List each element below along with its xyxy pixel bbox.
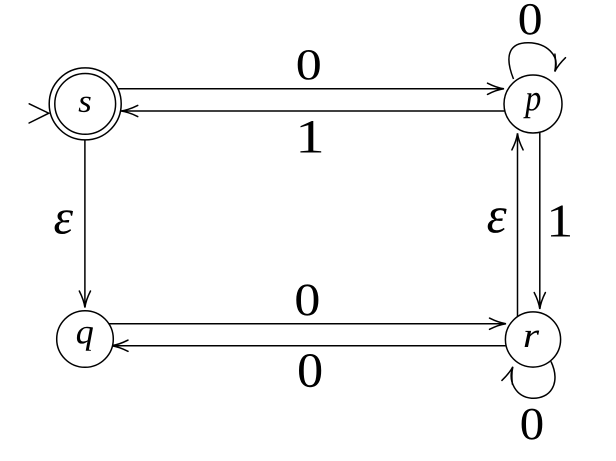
label 1 on p->r <box>551 205 570 236</box>
wire: edge s->q label eps <box>84 140 86 308</box>
wire: edge p->r label 1 <box>539 132 541 309</box>
label 0 on p loop <box>520 4 541 35</box>
label 0 on r->q <box>299 354 321 387</box>
self-loop on r label 0 <box>511 362 555 399</box>
state s (accepting, double circle) <box>49 68 121 140</box>
label epsilon on r->p <box>488 208 507 233</box>
label 0 on q->r <box>296 284 318 315</box>
wire: edge r->p label eps <box>517 133 519 316</box>
state p <box>504 75 562 133</box>
state r <box>505 312 560 367</box>
wire: edge p->s label 1 <box>121 110 505 112</box>
label 1 on p->s <box>300 121 321 153</box>
state q <box>57 311 114 368</box>
label 0 on r loop <box>522 409 543 440</box>
wire: edge s->p label 0 <box>118 88 504 90</box>
wire: edge q->r label 0 <box>109 323 507 325</box>
label 0 on s->p <box>298 50 320 80</box>
self-loop on p label 0 <box>509 43 556 79</box>
wire: edge r->q label 0 <box>112 345 507 347</box>
label epsilon on s->q <box>55 210 73 234</box>
start arrow into s <box>29 104 49 123</box>
